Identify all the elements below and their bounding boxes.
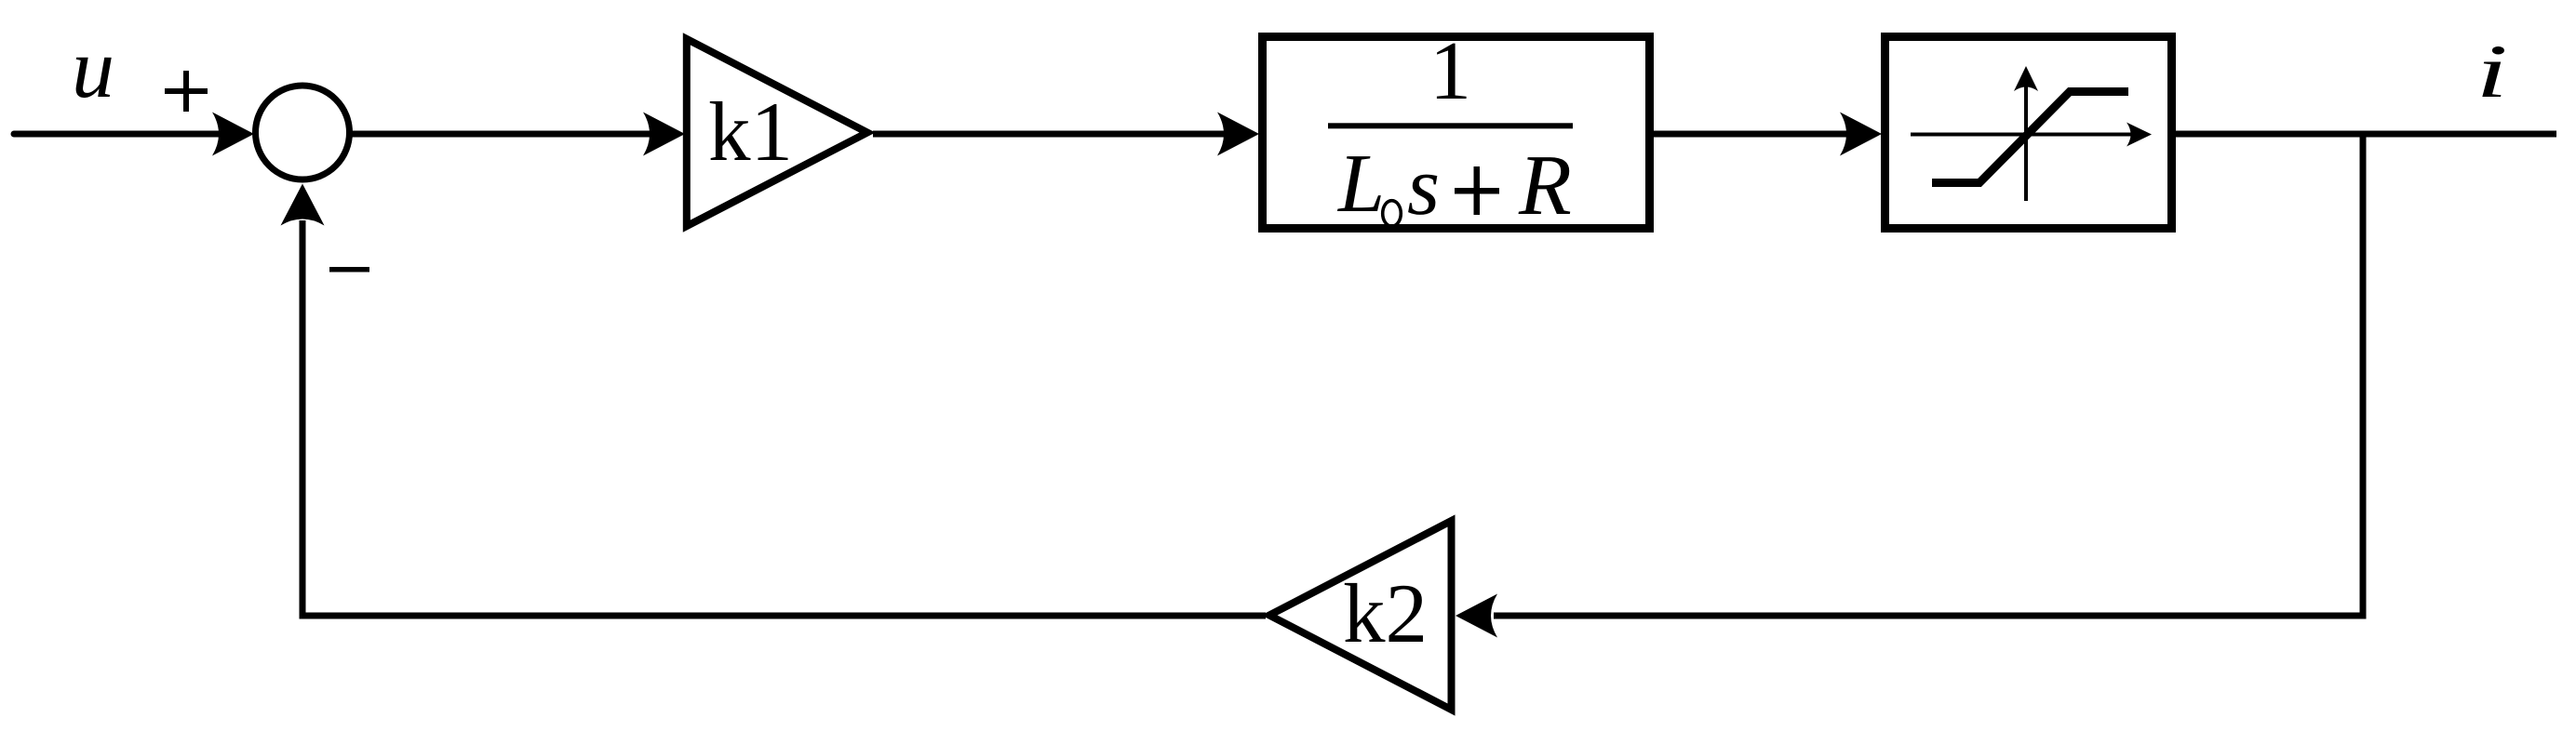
arrowhead into k2 (1456, 594, 1497, 638)
svg-text:R: R (1518, 138, 1572, 233)
arrowhead into saturation block (1840, 113, 1882, 156)
gain triangle k1 (687, 39, 867, 226)
saturation curve (1932, 92, 2128, 183)
summing junction circle (256, 86, 350, 179)
svg-text:u: u (72, 20, 114, 115)
saturation block box (1885, 37, 2172, 229)
plus sign at summing junction input (165, 71, 208, 112)
saturation y-axis (2024, 74, 2028, 201)
wire: k1 to transfer-function block (873, 131, 1224, 138)
denominator plus sign (1455, 188, 1499, 194)
arrowhead into transfer-function block (1217, 113, 1259, 156)
svg-text:k2: k2 (1343, 566, 1428, 660)
svg-text:s: s (1407, 140, 1440, 233)
svg-text:1: 1 (1429, 25, 1471, 117)
svg-text:i: i (2476, 29, 2508, 113)
wire: k2 to summing junction (feedback) (302, 220, 1266, 616)
wire: input u to summing junction (14, 131, 219, 138)
transfer function block 1/(L0s+R) (1263, 37, 1650, 229)
wire: summing junction to gain k1 (351, 131, 651, 138)
wire: feedback branch down and left to k2 (1494, 136, 2363, 616)
wire: transfer block to saturation block (1652, 131, 1847, 138)
fraction bar (1328, 123, 1573, 128)
minus sign on feedback input (329, 267, 369, 272)
saturation x-axis (1911, 133, 2136, 137)
arrowhead up into summing junction (281, 184, 325, 226)
arrowhead into k1 (643, 113, 685, 156)
denominator subscript 0 (1383, 201, 1402, 227)
wire: saturation block to output i (2174, 131, 2556, 138)
gain triangle k2 (1269, 521, 1452, 710)
svg-text:k1: k1 (708, 85, 793, 179)
svg-text:L: L (1336, 138, 1385, 230)
arrowhead into summing junction (212, 113, 254, 156)
